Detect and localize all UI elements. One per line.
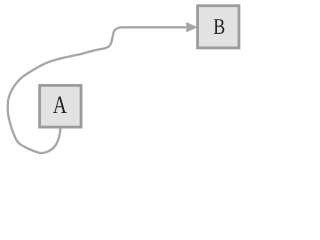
node A label "A" <box>53 97 67 113</box>
node B label "B" <box>214 19 224 34</box>
node B box <box>198 6 239 48</box>
wire: curved edge from node A to node B <box>8 27 188 153</box>
node A box <box>40 85 81 127</box>
arrowhead at node B <box>187 23 197 32</box>
